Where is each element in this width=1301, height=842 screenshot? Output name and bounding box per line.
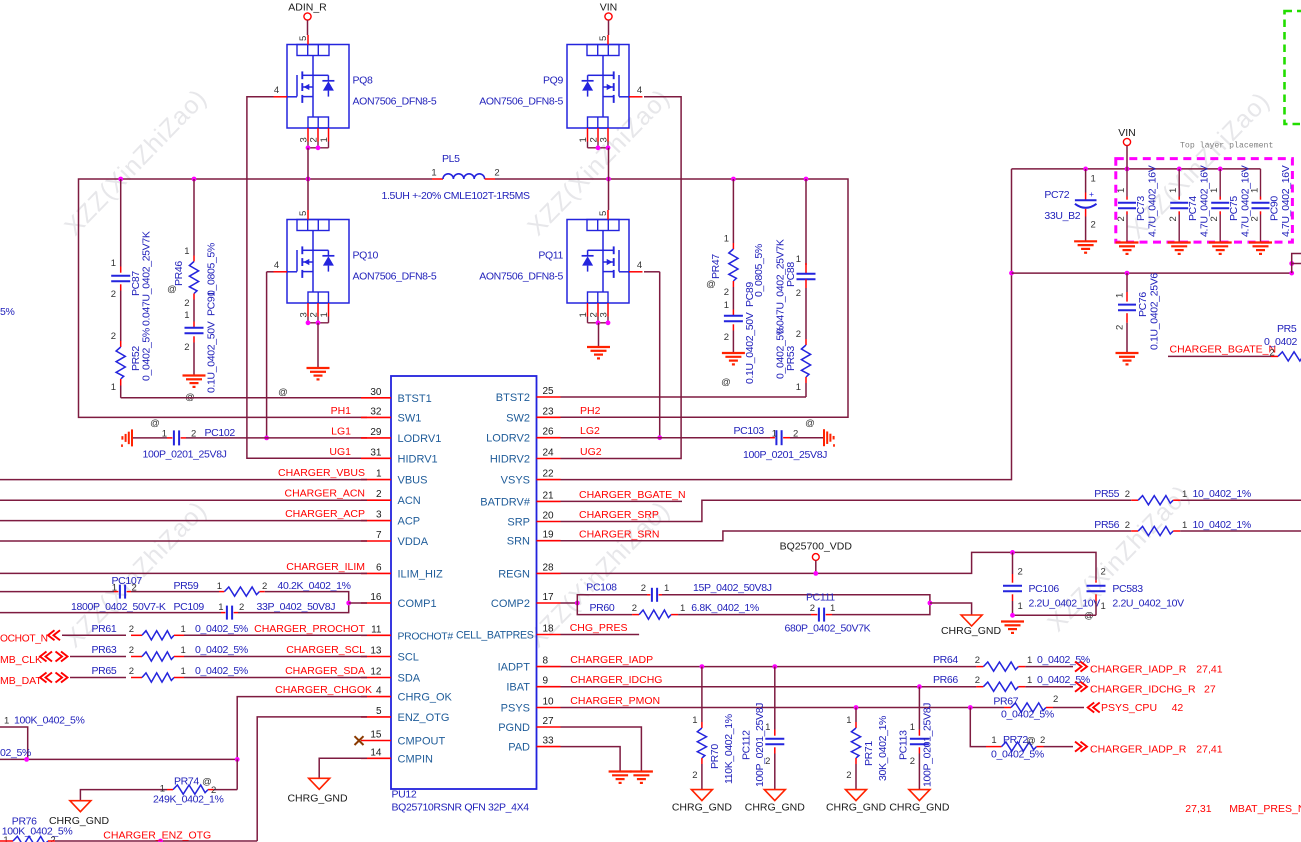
svg-text:2: 2 xyxy=(641,583,646,594)
capacitor PC109 xyxy=(0,612,221,614)
svg-text:VBUS: VBUS xyxy=(398,475,428,487)
svg-text:2: 2 xyxy=(1053,694,1058,705)
svg-text:VDDA: VDDA xyxy=(398,536,429,548)
svg-text:PC102: PC102 xyxy=(205,427,236,439)
svg-text:PGND: PGND xyxy=(498,722,530,734)
svg-text:2: 2 xyxy=(1018,567,1023,578)
svg-text:2: 2 xyxy=(632,603,637,614)
svg-text:IADPT: IADPT xyxy=(498,662,531,674)
svg-text:PC111: PC111 xyxy=(806,592,835,604)
svg-text:1: 1 xyxy=(376,469,382,480)
wire VIN rail xyxy=(1012,168,1261,170)
wire ENZ_OTG net xyxy=(257,717,367,841)
svg-text:@: @ xyxy=(278,387,288,398)
svg-text:6: 6 xyxy=(376,562,382,573)
svg-text:13: 13 xyxy=(370,646,382,657)
svg-text:2: 2 xyxy=(111,331,116,342)
svg-text:PU12: PU12 xyxy=(392,789,417,801)
svg-text:BQ25710RSNR QFN 32P_4X4: BQ25710RSNR QFN 32P_4X4 xyxy=(392,802,530,814)
wire VDDA xyxy=(0,540,367,542)
capacitor PC75 xyxy=(1219,169,1221,197)
svg-text:31: 31 xyxy=(370,447,382,458)
svg-text:2: 2 xyxy=(1209,216,1220,221)
ground PGND xyxy=(630,770,653,772)
resistor PR61 xyxy=(62,634,126,636)
node LG2 junction xyxy=(657,435,662,440)
svg-text:PR71: PR71 xyxy=(863,741,875,766)
wire CHARGER_BGATE_N stub xyxy=(561,500,683,502)
resistor PR60 xyxy=(577,603,632,615)
svg-text:33: 33 xyxy=(543,736,555,747)
svg-text:MB_CLK: MB_CLK xyxy=(0,654,42,666)
svg-text:CHARGER_IADP_R: CHARGER_IADP_R xyxy=(1090,744,1187,756)
svg-text:CHARGER_SRP: CHARGER_SRP xyxy=(579,509,659,521)
ground under PC106 xyxy=(1001,620,1024,622)
node COMP1 xyxy=(346,601,351,606)
svg-text:2: 2 xyxy=(376,489,382,500)
svg-text:1: 1 xyxy=(910,722,915,733)
svg-text:ACN: ACN xyxy=(398,495,421,507)
svg-text:0_0402_5%: 0_0402_5% xyxy=(1037,654,1090,666)
svg-text:100P_0201_25V8J: 100P_0201_25V8J xyxy=(922,703,934,787)
svg-text:0_0402_5%: 0_0402_5% xyxy=(991,749,1044,761)
off-page CHARGER_IADP_R xyxy=(1081,662,1088,672)
transistor PQ11 xyxy=(567,220,629,304)
svg-text:PR67: PR67 xyxy=(993,696,1018,708)
svg-text:4: 4 xyxy=(637,260,642,271)
svg-text:0_0402_5%: 0_0402_5% xyxy=(195,623,248,635)
svg-text:680P_0402_50V7K: 680P_0402_50V7K xyxy=(785,623,871,635)
capacitor PC90 xyxy=(1260,169,1262,197)
svg-text:1: 1 xyxy=(112,583,117,594)
svg-text:5: 5 xyxy=(598,36,609,41)
svg-text:CHRG_GND: CHRG_GND xyxy=(745,802,806,814)
svg-text:2: 2 xyxy=(184,298,189,309)
svg-text:SRP: SRP xyxy=(507,517,530,529)
svg-text:2: 2 xyxy=(1091,220,1096,231)
svg-text:2: 2 xyxy=(129,666,134,677)
ground CHRG_GND (PR70) xyxy=(691,790,712,801)
svg-text:100K_0402_5%: 100K_0402_5% xyxy=(14,715,85,727)
resistor PR64 xyxy=(976,666,983,668)
svg-text:1: 1 xyxy=(1250,188,1261,193)
svg-text:9: 9 xyxy=(543,676,549,687)
svg-text:1: 1 xyxy=(1209,188,1220,193)
capacitor PC106 xyxy=(1012,552,1014,574)
transistor PQ8 xyxy=(287,45,349,129)
svg-text:33P_0402_50V8J: 33P_0402_50V8J xyxy=(257,601,336,613)
svg-text:PC90: PC90 xyxy=(1269,196,1281,221)
capacitor PC112 xyxy=(774,667,776,730)
svg-text:PQ10: PQ10 xyxy=(353,249,379,261)
svg-text:MB_DAT: MB_DAT xyxy=(0,675,42,687)
svg-text:27: 27 xyxy=(1204,684,1216,696)
node PH2 junctions xyxy=(606,177,611,182)
wire CMPIN net xyxy=(319,758,367,778)
svg-text:1: 1 xyxy=(1168,188,1179,193)
svg-text:ACP: ACP xyxy=(398,516,421,528)
svg-text:25: 25 xyxy=(543,386,555,397)
svg-text:PH1: PH1 xyxy=(331,405,352,417)
svg-text:22: 22 xyxy=(543,469,555,480)
svg-text:5: 5 xyxy=(298,211,309,216)
ground under PC91 xyxy=(183,374,206,376)
svg-text:1: 1 xyxy=(111,258,116,269)
wire PGND xyxy=(561,727,642,772)
svg-text:4.7U_0402_16V: 4.7U_0402_16V xyxy=(1240,165,1252,237)
svg-text:19: 19 xyxy=(543,530,555,541)
resistor PR63 xyxy=(70,656,126,658)
svg-text:4.7U_0402_16V: 4.7U_0402_16V xyxy=(1147,165,1159,237)
svg-text:4: 4 xyxy=(274,85,279,96)
wire COMP1 xyxy=(349,602,367,604)
capacitor PC583 xyxy=(1095,580,1097,583)
svg-text:0_0402_5%: 0_0402_5% xyxy=(141,328,153,381)
wire 100K branch xyxy=(0,727,28,759)
svg-text:0.1U_0402_25V6: 0.1U_0402_25V6 xyxy=(1149,273,1161,350)
top layer placement dashed box xyxy=(1116,159,1293,243)
svg-text:14: 14 xyxy=(370,747,382,758)
svg-text:1: 1 xyxy=(218,602,223,613)
svg-text:PC106: PC106 xyxy=(1029,583,1060,595)
svg-text:CHARGER_IDCHG: CHARGER_IDCHG xyxy=(570,674,662,686)
svg-text:CHRG_GND: CHRG_GND xyxy=(889,802,950,814)
svg-text:100P_0201_25V8J: 100P_0201_25V8J xyxy=(743,449,827,461)
wire PQ10 source down xyxy=(317,323,319,368)
svg-text:PC91: PC91 xyxy=(206,291,218,316)
svg-text:PR61: PR61 xyxy=(92,623,117,635)
svg-text:PC74: PC74 xyxy=(1187,196,1199,221)
capacitor PC103 xyxy=(561,437,771,439)
resistor PR70 xyxy=(701,667,703,722)
node LG1 junction xyxy=(264,436,269,441)
ground CHRG_GND (PC112) xyxy=(764,790,785,801)
svg-text:PR70: PR70 xyxy=(709,744,721,769)
svg-text:PC89: PC89 xyxy=(744,282,756,307)
svg-text:5%: 5% xyxy=(0,306,14,318)
wire LG1 vertical (PQ10 gate) xyxy=(267,271,274,273)
svg-text:1: 1 xyxy=(692,715,697,726)
ground CHRG_GND (COMP2) xyxy=(961,615,982,626)
ground PC103 (right) xyxy=(823,429,825,446)
ground PAD xyxy=(609,770,632,772)
svg-text:0.1U_0402_50V: 0.1U_0402_50V xyxy=(744,312,756,384)
wire CHARGER_ACP xyxy=(0,520,367,522)
svg-text:BTST2: BTST2 xyxy=(496,392,530,404)
svg-text:4: 4 xyxy=(637,85,642,96)
wire PH2 rail xyxy=(495,179,848,417)
svg-text:2: 2 xyxy=(191,429,196,440)
svg-text:17: 17 xyxy=(543,592,555,603)
svg-text:SRN: SRN xyxy=(507,536,530,548)
ground PC102 (left) xyxy=(131,429,133,446)
wire UG1 net (PQ8 gate) xyxy=(247,97,367,459)
svg-text:1: 1 xyxy=(1018,601,1023,612)
svg-text:CMPIN: CMPIN xyxy=(398,753,434,765)
svg-text:PAD: PAD xyxy=(508,742,530,754)
svg-text:2: 2 xyxy=(129,645,134,656)
svg-text:CHRG_GND: CHRG_GND xyxy=(826,802,887,814)
ground under PC74 xyxy=(1168,241,1191,243)
svg-text:PC113: PC113 xyxy=(898,730,910,760)
node IADP junctions xyxy=(700,664,705,669)
svg-text:LODRV1: LODRV1 xyxy=(398,433,442,445)
svg-text:1800P_0402_50V7-K: 1800P_0402_50V7-K xyxy=(71,601,166,613)
svg-text:@: @ xyxy=(150,418,160,429)
off-page CHARGER_IDCHG_R xyxy=(1081,682,1088,692)
ground under PC90 xyxy=(1249,241,1272,243)
svg-text:HIDRV1: HIDRV1 xyxy=(398,453,438,465)
wire SRN net xyxy=(561,531,1132,541)
svg-text:2.2U_0402_10V: 2.2U_0402_10V xyxy=(1029,598,1101,610)
svg-text:CHARGER_BGATE_N: CHARGER_BGATE_N xyxy=(579,489,686,501)
wire PH1 rail xyxy=(79,179,433,417)
ground under PC72 xyxy=(1074,240,1097,242)
svg-text:AON7506_DFN8-5: AON7506_DFN8-5 xyxy=(353,271,437,283)
svg-text:29: 29 xyxy=(370,427,382,438)
svg-text:2.2U_0402_10V: 2.2U_0402_10V xyxy=(1112,598,1184,610)
svg-text:1: 1 xyxy=(1101,601,1106,612)
svg-text:5: 5 xyxy=(376,706,382,717)
svg-text:BATDRV#: BATDRV# xyxy=(480,496,531,508)
wire to CHRG_OK row xyxy=(0,758,237,760)
svg-text:PR47: PR47 xyxy=(710,254,722,279)
svg-text:PR46: PR46 xyxy=(173,261,185,286)
capacitor PC89 xyxy=(732,287,734,310)
svg-text:PQ8: PQ8 xyxy=(353,74,373,86)
capacitor PC73 xyxy=(1126,169,1128,197)
svg-text:VSYS: VSYS xyxy=(501,475,530,487)
svg-text:1: 1 xyxy=(772,429,777,440)
svg-text:1: 1 xyxy=(1027,675,1032,686)
svg-text:1: 1 xyxy=(830,603,835,614)
svg-text:1: 1 xyxy=(162,429,167,440)
svg-text:40.2K_0402_1%: 40.2K_0402_1% xyxy=(278,580,351,592)
wire CHARGER_VBUS xyxy=(0,479,367,481)
wire PAD xyxy=(561,747,621,772)
svg-text:+: + xyxy=(1089,189,1094,199)
svg-text:PR60: PR60 xyxy=(590,602,615,614)
off-page PSYS_CPU xyxy=(1088,703,1095,713)
svg-text:27: 27 xyxy=(543,716,555,727)
svg-text:15P_0402_50V8J: 15P_0402_50V8J xyxy=(693,582,772,594)
svg-text:PQ11: PQ11 xyxy=(538,249,563,261)
svg-text:SCL: SCL xyxy=(398,652,419,664)
svg-text:LG1: LG1 xyxy=(331,425,351,437)
green dashed box (cut off) xyxy=(1285,11,1301,124)
svg-text:PC73: PC73 xyxy=(1135,196,1147,221)
svg-text:2: 2 xyxy=(494,168,499,179)
wire CHARGER_BGATE_N right xyxy=(1168,355,1271,357)
svg-text:24: 24 xyxy=(543,448,555,459)
svg-text:27,41: 27,41 xyxy=(1196,744,1222,756)
svg-text:1: 1 xyxy=(111,382,116,393)
wire PQ8 source to rail xyxy=(307,148,309,179)
svg-text:0.047U_0402_25V7K: 0.047U_0402_25V7K xyxy=(141,231,153,326)
svg-text:@: @ xyxy=(805,418,815,429)
svg-text:0_0805_5%: 0_0805_5% xyxy=(206,243,218,296)
resistor PR72 xyxy=(970,708,986,747)
svg-text:PC108: PC108 xyxy=(586,582,617,594)
IC PU12 BQ25710RSNR xyxy=(391,376,537,789)
svg-text:2: 2 xyxy=(1040,735,1045,746)
svg-text:33U_B2: 33U_B2 xyxy=(1044,210,1080,222)
svg-text:2: 2 xyxy=(810,603,815,614)
resistor PR53 xyxy=(805,288,807,339)
node bottom-left junctions xyxy=(24,757,29,762)
wire SRP net xyxy=(561,500,1132,521)
wire CHARGER_PMON xyxy=(561,707,1005,709)
svg-text:PC75: PC75 xyxy=(1228,196,1240,221)
svg-text:12: 12 xyxy=(370,667,382,678)
svg-text:CHARGER_ILIM: CHARGER_ILIM xyxy=(286,561,365,573)
node COMP2 left xyxy=(575,601,580,606)
svg-text:PL5: PL5 xyxy=(442,153,460,165)
svg-text:PR53: PR53 xyxy=(785,346,797,371)
capacitor PC113 xyxy=(918,687,920,730)
svg-text:27,41: 27,41 xyxy=(1196,664,1222,676)
svg-text:CHARGER_CHGOK: CHARGER_CHGOK xyxy=(275,684,372,696)
ground under PC73 xyxy=(1116,241,1139,243)
svg-text:32: 32 xyxy=(370,406,382,417)
node PH1 junctions xyxy=(118,177,123,182)
ground CHRG_GND (CMPIN) xyxy=(309,778,330,789)
svg-text:HIDRV2: HIDRV2 xyxy=(490,454,530,466)
capacitor PC88 xyxy=(805,179,807,265)
wire REGN net xyxy=(561,552,1097,580)
svg-text:SDA: SDA xyxy=(398,673,421,685)
svg-text:30K_0402_1%: 30K_0402_1% xyxy=(877,716,889,781)
capacitor PC72 (polarized) xyxy=(1085,169,1087,193)
capacitor PC87 xyxy=(120,179,122,267)
svg-text:3: 3 xyxy=(376,510,382,521)
svg-text:BTST1: BTST1 xyxy=(398,393,432,405)
svg-text:PR59: PR59 xyxy=(174,580,199,592)
svg-text:PC103: PC103 xyxy=(734,425,765,437)
node PC106 ground junction xyxy=(1010,613,1015,618)
svg-text:PR55: PR55 xyxy=(1094,488,1119,500)
svg-text:100P_0201_25V8J: 100P_0201_25V8J xyxy=(143,449,227,461)
svg-text:0_0402_5%: 0_0402_5% xyxy=(195,665,248,677)
svg-text:PR65: PR65 xyxy=(92,665,117,677)
svg-text:BQ25700_VDD: BQ25700_VDD xyxy=(780,541,853,553)
svg-text:MBAT_PRES_N: MBAT_PRES_N xyxy=(1229,803,1301,815)
ground under PQ10 xyxy=(307,367,330,369)
svg-text:PC109: PC109 xyxy=(174,601,205,613)
svg-text:5: 5 xyxy=(598,211,609,216)
capacitor PC76 xyxy=(1126,273,1128,292)
svg-text:1: 1 xyxy=(1027,655,1032,666)
resistor PR59 xyxy=(131,591,219,593)
svg-text:CHARGER_SRN: CHARGER_SRN xyxy=(579,529,660,541)
svg-text:CHARGER_PMON: CHARGER_PMON xyxy=(570,695,660,707)
svg-text:42: 42 xyxy=(1172,702,1184,714)
svg-text:AON7506_DFN8-5: AON7506_DFN8-5 xyxy=(479,271,563,283)
wire BTST2 net xyxy=(561,396,807,398)
node second rail junctions xyxy=(1125,271,1130,276)
svg-text:CHARGER_IADP: CHARGER_IADP xyxy=(570,654,653,666)
svg-text:1: 1 xyxy=(431,168,436,179)
svg-text:10_0402_1%: 10_0402_1% xyxy=(1193,488,1251,500)
svg-text:PC88: PC88 xyxy=(785,262,797,287)
svg-text:2: 2 xyxy=(129,624,134,635)
svg-text:30: 30 xyxy=(370,387,382,398)
svg-text:1: 1 xyxy=(4,716,9,727)
wire CHARGER_ACN xyxy=(0,499,367,501)
svg-text:2: 2 xyxy=(692,770,697,781)
wire LG2 vertical (PQ11 gate) xyxy=(644,271,660,273)
svg-text:REGN: REGN xyxy=(498,568,530,580)
svg-text:VIN: VIN xyxy=(600,2,618,14)
svg-text:PR66: PR66 xyxy=(933,674,958,686)
ground CHRG_GND (PC113) xyxy=(909,790,930,801)
svg-text:2: 2 xyxy=(724,332,729,343)
svg-text:PR5: PR5 xyxy=(1277,323,1297,335)
svg-text:@: @ xyxy=(721,377,731,388)
svg-text:CHARGER_SCL: CHARGER_SCL xyxy=(286,644,365,656)
wire COMP2 to ground xyxy=(930,603,972,615)
svg-text:LODRV2: LODRV2 xyxy=(486,433,530,445)
svg-text:1: 1 xyxy=(724,300,729,311)
capacitor PC102 xyxy=(133,437,167,439)
svg-text:CHRG_GND: CHRG_GND xyxy=(672,802,733,814)
svg-text:0_0402_5%: 0_0402_5% xyxy=(195,644,248,656)
svg-text:SW1: SW1 xyxy=(398,412,422,424)
svg-text:CHARGER_SDA: CHARGER_SDA xyxy=(285,665,365,677)
svg-text:1: 1 xyxy=(991,735,996,746)
svg-text:27,31: 27,31 xyxy=(1185,803,1211,815)
svg-text:4.7U_0402_16V: 4.7U_0402_16V xyxy=(1280,165,1292,237)
svg-text:5: 5 xyxy=(298,36,309,41)
svg-text:CHARGER_ACP: CHARGER_ACP xyxy=(285,508,365,520)
svg-text:2: 2 xyxy=(793,429,798,440)
capacitor PC107 xyxy=(0,591,114,593)
svg-text:2: 2 xyxy=(796,329,801,340)
svg-text:2: 2 xyxy=(796,288,801,299)
svg-text:0_0402_5%: 0_0402_5% xyxy=(1037,674,1090,686)
svg-text:PSYS: PSYS xyxy=(501,703,530,715)
svg-text:0_0402: 0_0402 xyxy=(1264,336,1297,348)
svg-text:LG2: LG2 xyxy=(580,425,600,437)
svg-text:100K_0402_5%: 100K_0402_5% xyxy=(2,826,73,838)
wire PQ11 source down xyxy=(598,323,600,347)
capacitor PC91 xyxy=(193,300,195,322)
svg-text:1: 1 xyxy=(181,666,186,677)
svg-text:PR64: PR64 xyxy=(933,654,958,666)
svg-text:VIN: VIN xyxy=(1118,127,1136,139)
svg-text:PC583: PC583 xyxy=(1112,583,1143,595)
resistor PR55 xyxy=(1131,499,1138,501)
svg-text:CHARGER_IDCHG_R: CHARGER_IDCHG_R xyxy=(1090,684,1196,696)
wire rail to PQ11 drain xyxy=(608,179,610,210)
ground under PC76 xyxy=(1116,352,1139,354)
node REGN cap junction xyxy=(1010,550,1015,555)
svg-text:2: 2 xyxy=(975,675,980,686)
svg-text:CHRG_GND: CHRG_GND xyxy=(287,793,348,805)
resistor PR56 xyxy=(1131,530,1138,532)
svg-text:CHARGER_BGATE_N: CHARGER_BGATE_N xyxy=(1170,344,1277,356)
svg-text:0_0402_5%: 0_0402_5% xyxy=(775,326,787,379)
component at right edge (cut off) xyxy=(1292,254,1301,264)
svg-text:2: 2 xyxy=(1168,216,1179,221)
svg-text:AON7506_DFN8-5: AON7506_DFN8-5 xyxy=(479,96,563,108)
wire VSYS net xyxy=(561,169,1012,480)
svg-text:CHRG_GND: CHRG_GND xyxy=(941,625,1002,637)
svg-text:2: 2 xyxy=(111,289,116,300)
transistor PQ9 xyxy=(567,45,629,129)
svg-text:4: 4 xyxy=(376,686,382,697)
node VSYS-VIN rail junction xyxy=(1009,271,1014,276)
